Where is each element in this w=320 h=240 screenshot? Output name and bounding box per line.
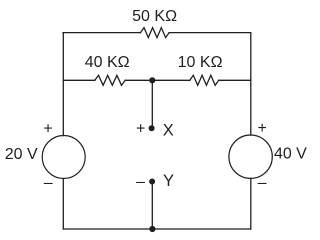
wire bottom rail: [63, 228, 251, 230]
svg-text:10 KΩ: 10 KΩ: [178, 54, 223, 71]
svg-text:40 KΩ: 40 KΩ: [85, 54, 130, 71]
svg-text:20 V: 20 V: [5, 146, 38, 163]
resistor 10 KΩ: [190, 75, 219, 85]
resistor 50 KΩ: [141, 28, 170, 38]
svg-text:X: X: [163, 121, 174, 139]
svg-text:–: –: [44, 175, 53, 192]
svg-text:Y: Y: [163, 172, 174, 190]
node Y dot: [149, 179, 155, 185]
wire top rail right segment: [169, 32, 251, 34]
junction dot on bottom rail: [149, 226, 155, 232]
wire middle rail segment 2: [125, 79, 190, 81]
wire right vertical upper: [250, 33, 252, 135]
node X dot: [149, 125, 155, 131]
wire stub junction to node X: [151, 80, 153, 127]
wire left vertical lower: [62, 179, 64, 230]
wire middle rail segment 1: [63, 79, 95, 81]
svg-text:+: +: [43, 120, 52, 137]
junction dot on middle rail: [149, 77, 155, 83]
svg-text:+: +: [136, 120, 145, 137]
svg-text:40 V: 40 V: [274, 145, 307, 162]
wire stub node Y to bottom rail: [151, 182, 153, 229]
svg-text:–: –: [258, 175, 267, 192]
voltage source V2 circle: [229, 135, 272, 178]
svg-text:+: +: [258, 120, 267, 137]
wire middle rail segment 3: [219, 79, 251, 81]
wire left vertical upper: [62, 33, 64, 136]
svg-text:50 KΩ: 50 KΩ: [132, 8, 177, 25]
wire top rail left segment: [63, 32, 141, 34]
svg-text:–: –: [136, 174, 145, 191]
resistor 40 KΩ: [95, 75, 125, 85]
voltage source V1 circle: [42, 136, 85, 179]
wire right vertical lower: [250, 178, 252, 229]
